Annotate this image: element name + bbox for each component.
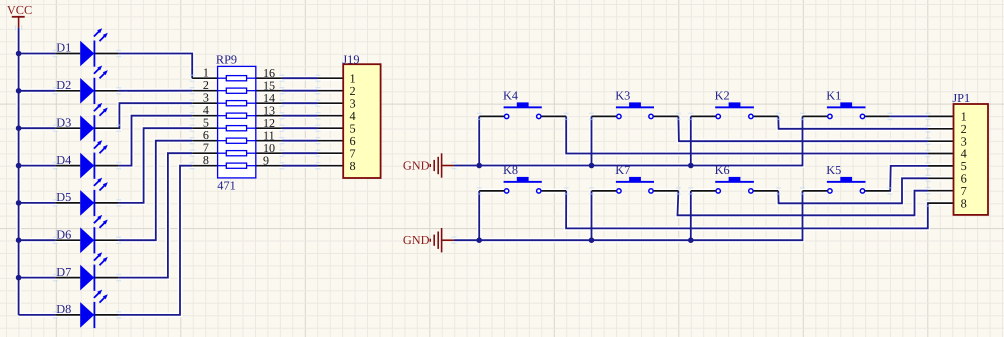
label D7 (56, 265, 71, 279)
wire D5 cathode to RP9 pin 5 (119, 128, 193, 203)
pin-end marks D7 (53, 274, 121, 281)
RP9 pin 10 stub (256, 152, 282, 154)
svg-text:D8: D8 (56, 302, 71, 316)
wire RP9 pin 11 to J19 pin 6 (282, 140, 318, 142)
wire D7 cathode to RP9 pin 7 (119, 153, 193, 277)
J19 pin 3 stub (318, 102, 343, 104)
wire bus to D6 anode (19, 239, 56, 241)
RP9 pin number 15 (263, 79, 275, 93)
power port GND top junction marks (452, 162, 457, 169)
wire bus to D4 anode (19, 165, 56, 167)
RP9 pin 16 stub (256, 77, 282, 79)
svg-text:K4: K4 (503, 88, 518, 102)
resistor element R2 (226, 88, 246, 93)
J19 pin number 5 (350, 121, 356, 135)
resistor element R8 (226, 163, 246, 168)
switch K5 terminals (828, 189, 865, 193)
JP1 pin 5 stub (928, 165, 954, 167)
power port GND bottom text (403, 233, 430, 247)
RP9 internal leads row 8 (218, 165, 256, 167)
pin K3 left (592, 115, 617, 117)
pin-end marks K7 (589, 187, 681, 194)
label JP1 (952, 91, 970, 105)
pin D6 anode (55, 239, 80, 241)
J19 pin 5 stub (318, 127, 343, 129)
JP1 pin number 1 (961, 110, 967, 124)
JP1 pin number 8 (961, 196, 967, 210)
wire RP9 pin 13 to J19 pin 4 (282, 115, 318, 117)
connector JP1 body (954, 104, 989, 215)
switch K4 terminals (504, 114, 541, 118)
RP9 pin 1 stub (192, 77, 217, 79)
RP9 pin 2 stub (192, 90, 217, 92)
pin K8 right (541, 190, 566, 192)
switch K5 cap and bar (827, 177, 866, 183)
pin K2 right (753, 115, 778, 117)
label K1 (826, 88, 841, 102)
label D6 (56, 227, 71, 241)
pin K1 right (865, 115, 890, 117)
junction VCC bus at D5 (16, 200, 22, 206)
power port GND top (430, 153, 455, 177)
power port GND bottom (430, 228, 455, 252)
wire GND bottom net (454, 191, 803, 240)
svg-text:GND: GND (403, 233, 430, 247)
RP9 pin number 16 (263, 66, 275, 80)
JP1 pin number 2 (961, 122, 967, 136)
LED D4 light arrows (94, 140, 108, 153)
junction VCC bus at D4 (16, 163, 22, 169)
wire D4 cathode to RP9 pin 4 (119, 116, 193, 166)
wire RP9 pin 16 to J19 pin 1 (282, 77, 318, 79)
RP9 pin number 14 (263, 91, 275, 105)
label K7 (615, 163, 630, 177)
JP1 pin number 6 (961, 172, 967, 186)
svg-text:J19: J19 (342, 53, 359, 67)
pin D5 cathode (94, 202, 118, 204)
svg-text:VCC: VCC (7, 3, 32, 17)
pin-end marks D2 (53, 87, 121, 94)
svg-text:RP9: RP9 (216, 53, 237, 67)
pin D7 cathode (94, 277, 118, 279)
junction VCC bus at D6 (16, 237, 22, 243)
J19 pin number 3 (350, 96, 356, 110)
label D2 (56, 78, 71, 92)
pin-end marks D1 (53, 50, 121, 57)
RP9 pin 14 stub (256, 102, 282, 104)
pin D8 cathode (94, 314, 118, 316)
wire bus to D8 anode (19, 314, 56, 316)
wire bus to D5 anode (19, 202, 56, 204)
label D5 (56, 190, 71, 204)
RP9 pin 13 stub (256, 115, 282, 117)
pin K4 left (479, 115, 504, 117)
switch K8 terminals (504, 189, 541, 193)
pin-end marks K8 (477, 187, 569, 194)
LED D3 triangle (80, 115, 94, 141)
LED D4 triangle (80, 153, 94, 179)
RP9 pin number 2 (203, 78, 209, 92)
RP9 pin number 5 (203, 116, 209, 130)
LED D5 light arrows (94, 178, 108, 191)
svg-text:8: 8 (350, 159, 356, 173)
LED D6 light arrows (94, 215, 108, 228)
wire K5 to JP1 pin 5 (890, 166, 928, 191)
pin D7 anode (55, 277, 80, 279)
wire RP9 pin 15 to J19 pin 2 (282, 90, 318, 92)
junction VCC bus at D3 (16, 125, 22, 131)
J19 pin 1 stub (318, 77, 343, 79)
JP1 pin number 7 (961, 184, 967, 198)
label J19 (342, 53, 359, 67)
svg-text:JP1: JP1 (952, 91, 970, 105)
J19 pin 6 stub (318, 140, 343, 142)
svg-text:9: 9 (263, 154, 269, 168)
RP9 pin number 11 (263, 129, 275, 143)
switch K2 cap and bar (715, 102, 754, 108)
wire D6 cathode to RP9 pin 6 (119, 141, 193, 241)
svg-text:D4: D4 (56, 153, 71, 167)
wire bus to D3 anode (19, 127, 56, 129)
RP9 internal leads row 4 (218, 115, 256, 117)
pin-end marks JP1 pin 5 (926, 162, 931, 169)
value label 471 (217, 178, 235, 192)
pin D3 anode (55, 127, 80, 129)
svg-text:K7: K7 (615, 163, 630, 177)
switch K4 cap and bar (504, 102, 542, 108)
pin-end marks RP9 row 3 (190, 100, 321, 107)
switch K6 terminals (716, 189, 753, 193)
RP9 pin 5 stub (192, 127, 217, 129)
wire K4 to JP1 pin 4 (566, 116, 928, 153)
LED D6 triangle (80, 227, 94, 253)
RP9 pin number 13 (263, 104, 275, 118)
LED D7 light arrows (94, 252, 108, 265)
J19 pin 4 stub (318, 115, 343, 117)
junction VCC bus at D1 (16, 51, 22, 57)
wire RP9 pin 12 to J19 pin 5 (282, 127, 318, 129)
svg-text:D3: D3 (56, 115, 71, 129)
wire bus to D1 anode (19, 53, 56, 55)
power port VCC bar (12, 16, 25, 18)
RP9 pin 11 stub (256, 140, 282, 142)
wire halo layer (19, 28, 954, 315)
pin D6 cathode (94, 239, 118, 241)
RP9 pin number 8 (203, 153, 209, 167)
pin D2 anode (55, 90, 80, 92)
junction VCC bus at D2 (16, 88, 22, 94)
pin-end marks JP1 pin 8 (926, 199, 931, 206)
wire bus to D2 anode (19, 90, 56, 92)
label K4 (503, 88, 518, 102)
pin-end marks RP9 row 1 (190, 75, 321, 82)
RP9 pin number 1 (203, 66, 209, 80)
pin-end marks JP1 pin 1 (926, 113, 931, 120)
RP9 pin 4 stub (192, 115, 217, 117)
RP9 internal leads row 5 (218, 127, 256, 129)
label K6 (715, 163, 730, 177)
pin K2 left (691, 115, 716, 117)
pin D1 cathode (94, 53, 118, 55)
svg-text:8: 8 (961, 196, 967, 210)
pin K5 right (865, 190, 890, 192)
power port GND top text (403, 159, 430, 173)
LED D7 triangle (80, 265, 94, 291)
pin K5 left (803, 190, 828, 192)
switch K7 cap and bar (616, 177, 654, 183)
pin-end marks K5 (800, 187, 892, 194)
pin-end marks D4 (53, 162, 121, 169)
pin D4 anode (55, 165, 80, 167)
RP9 pin number 4 (203, 103, 209, 117)
RP9 pin 9 stub (256, 165, 282, 167)
connector J19 body (343, 64, 380, 178)
wire K7 to JP1 pin 7 (678, 191, 929, 216)
RP9 internal leads row 1 (218, 77, 256, 79)
pin-end marks JP1 pin 7 (926, 187, 931, 194)
pin D3 cathode (94, 127, 118, 129)
switch K7 terminals (617, 189, 654, 193)
wire D1 cathode to RP9 pin 1 (119, 54, 193, 79)
svg-text:D1: D1 (56, 41, 71, 55)
wire RP9 pin 10 to J19 pin 7 (282, 152, 318, 154)
wire K6 to JP1 pin 6 (778, 178, 928, 203)
power port VCC lead (18, 17, 20, 28)
resistor element R3 (226, 101, 246, 106)
pin-end marks RP9 row 6 (190, 137, 321, 144)
switch K1 terminals (828, 114, 865, 118)
RP9 pin 8 stub (192, 165, 217, 167)
junction K4 on GND top (476, 163, 482, 169)
wire K8 left to GND bottom (478, 191, 480, 240)
RP9 internal leads row 7 (218, 152, 256, 154)
switch K1 cap and bar (827, 102, 866, 108)
J19 pin number 1 (350, 71, 356, 85)
pin K1 left (803, 115, 828, 117)
pin-end marks K3 (589, 113, 681, 120)
svg-text:8: 8 (203, 153, 209, 167)
wire K3 left to GND top (591, 116, 593, 165)
LED D8 triangle (80, 302, 94, 328)
pin D4 cathode (94, 165, 118, 167)
J19 pin 2 stub (318, 90, 343, 92)
pin-end marks D3 (53, 125, 121, 132)
pin K7 right (653, 190, 678, 192)
pin-end marks JP1 pin 2 (926, 125, 931, 132)
wire D2 cathode to RP9 pin 2 (119, 90, 193, 92)
pin-end marks K2 (688, 113, 781, 120)
junction K6 on GND bottom (688, 237, 694, 243)
LED D1 triangle (80, 41, 94, 67)
svg-text:471: 471 (217, 178, 235, 192)
resistor element R6 (226, 138, 246, 143)
RP9 pin 7 stub (192, 152, 217, 154)
pin-end marks D5 (53, 199, 121, 206)
svg-text:GND: GND (403, 159, 430, 173)
J19 pin number 7 (350, 146, 356, 160)
JP1 pin 8 stub (928, 202, 954, 204)
pin K8 left (479, 190, 504, 192)
resistor element R7 (226, 151, 246, 156)
pin-end marks D6 (53, 237, 121, 244)
resistor element R1 (226, 76, 246, 81)
pin-end marks JP1 pin 6 (926, 175, 931, 182)
svg-text:D2: D2 (56, 78, 71, 92)
svg-text:D5: D5 (56, 190, 71, 204)
power port GND bottom junction marks (452, 237, 457, 244)
RP9 internal leads row 3 (218, 102, 256, 104)
JP1 pin 7 stub (928, 190, 954, 192)
resistor element R5 (226, 126, 246, 131)
wire GND top net (454, 116, 803, 165)
pin D2 cathode (94, 90, 118, 92)
pin-end marks RP9 row 8 (190, 162, 321, 169)
wire K2 left to GND top (690, 116, 692, 165)
RP9 pin number 6 (203, 128, 209, 142)
RP9 pin number 12 (263, 116, 275, 130)
label K2 (715, 88, 730, 102)
LED D3 light arrows (94, 103, 108, 116)
pin K6 right (753, 190, 778, 192)
RP9 pin number 7 (203, 141, 209, 155)
junction VCC bus at D7 (16, 275, 22, 281)
wire RP9 pin 9 to J19 pin 8 (282, 165, 318, 167)
pin-end marks JP1 pin 4 (926, 150, 931, 157)
wire K2 to JP1 pin 2 (778, 116, 928, 128)
pin-end marks RP9 row 7 (190, 150, 321, 157)
J19 pin number 6 (350, 134, 356, 148)
wire K7 left to GND bottom (591, 191, 593, 240)
JP1 pin 1 stub (928, 115, 954, 117)
switch K6 cap and bar (715, 177, 754, 183)
wire bus to D7 anode (19, 277, 56, 279)
svg-text:K8: K8 (503, 163, 518, 177)
switch K3 cap and bar (616, 102, 654, 108)
JP1 pin 4 stub (928, 153, 954, 155)
switch K2 terminals (716, 114, 753, 118)
svg-text:K6: K6 (715, 163, 730, 177)
LED D1 light arrows (94, 28, 108, 41)
label D4 (56, 153, 71, 167)
resistor network RP9 body (218, 66, 256, 177)
RP9 internal leads row 2 (218, 90, 256, 92)
LED cathode bars (93, 41, 95, 329)
JP1 pin 6 stub (928, 177, 954, 179)
RP9 internal leads row 6 (218, 140, 256, 142)
pin K7 left (592, 190, 617, 192)
LED D2 triangle (80, 78, 94, 104)
pin D5 anode (55, 202, 80, 204)
wire D8 cathode to RP9 pin 8 (119, 166, 193, 315)
pin-end marks K1 (800, 113, 892, 120)
RP9 pin 3 stub (192, 102, 217, 104)
switch K8 cap and bar (504, 177, 542, 183)
JP1 pin number 3 (961, 134, 967, 148)
wire K4 left to GND top (478, 116, 480, 165)
svg-text:K5: K5 (826, 163, 841, 177)
wire RP9 pin 14 to J19 pin 3 (282, 102, 318, 104)
pin-end marks RP9 row 4 (190, 112, 321, 119)
label D8 (56, 302, 71, 316)
pin K3 right (653, 115, 678, 117)
junction K7 on GND bottom (589, 237, 595, 243)
svg-text:D7: D7 (56, 265, 71, 279)
RP9 pin 12 stub (256, 127, 282, 129)
RP9 pin number 9 (263, 154, 269, 168)
junction K3 on GND top (589, 163, 595, 169)
pin K4 right (541, 115, 566, 117)
label K8 (503, 163, 518, 177)
wire K1 to JP1 pin 1 (890, 115, 928, 117)
JP1 pin 2 stub (928, 128, 954, 130)
RP9 pin 6 stub (192, 140, 217, 142)
LED D8 light arrows (94, 290, 108, 303)
JP1 pin number 5 (961, 159, 967, 173)
pin-end marks K4 (477, 113, 569, 120)
J19 pin number 8 (350, 159, 356, 173)
wire K8 to JP1 pin 8 (566, 191, 928, 229)
JP1 pin 3 stub (928, 140, 954, 142)
wire VCC bus vertical (18, 28, 20, 315)
RP9 pin number 10 (263, 141, 275, 155)
label K3 (615, 88, 630, 102)
power port VCC text (7, 3, 32, 17)
pin-end marks D8 (53, 311, 121, 318)
svg-text:K3: K3 (615, 88, 630, 102)
junction K2 on GND top (688, 163, 694, 169)
J19 pin 8 stub (318, 165, 343, 167)
RP9 pin number 3 (203, 91, 209, 105)
pin D8 anode (55, 314, 80, 316)
pin-end marks K6 (688, 187, 781, 194)
label RP9 (216, 53, 237, 67)
svg-text:K1: K1 (826, 88, 841, 102)
pin-end marks JP1 pin 3 (926, 138, 931, 145)
wire K3 to JP1 pin 3 (678, 116, 928, 141)
switch K3 terminals (617, 114, 654, 118)
LED D2 light arrows (94, 66, 108, 79)
VCC junction marks (15, 25, 22, 30)
resistor element R4 (226, 113, 246, 118)
pin-end marks RP9 row 5 (190, 125, 321, 132)
J19 pin number 2 (350, 84, 356, 98)
label D3 (56, 115, 71, 129)
RP9 pin 15 stub (256, 90, 282, 92)
wire K6 left to GND bottom (690, 191, 692, 240)
svg-text:D6: D6 (56, 227, 71, 241)
JP1 pin number 4 (961, 147, 967, 161)
pin-end marks RP9 row 2 (190, 87, 321, 94)
junction K8 on GND bottom (476, 237, 482, 243)
pin D1 anode (55, 53, 80, 55)
J19 pin 7 stub (318, 152, 343, 154)
label K5 (826, 163, 841, 177)
pin K6 left (691, 190, 716, 192)
LED D5 triangle (80, 190, 94, 216)
svg-text:K2: K2 (715, 88, 730, 102)
J19 pin number 4 (350, 109, 356, 123)
wire D3 cathode to RP9 pin 3 (119, 103, 193, 128)
label D1 (56, 41, 71, 55)
